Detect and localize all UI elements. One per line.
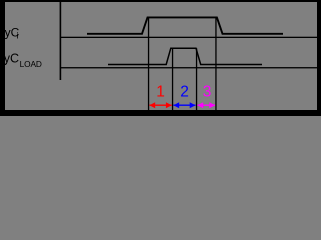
svg-text:yC: yC xyxy=(4,52,19,66)
signal name label yC_LOAD xyxy=(4,52,42,69)
border frame (decorative) xyxy=(0,0,321,116)
interval 1 label "1" xyxy=(156,84,165,101)
interval 1 dimension arrow (red) xyxy=(149,102,171,108)
interval 3 label "3" xyxy=(203,84,212,101)
label column divider line xyxy=(60,2,62,80)
waveform trace yC_i (pulse) xyxy=(87,17,283,33)
svg-text:1: 1 xyxy=(156,84,165,101)
interval 3 dimension arrow (magenta) xyxy=(197,102,215,108)
signal yC_i axis baseline xyxy=(61,37,317,38)
signal name label yC_i xyxy=(5,25,20,40)
guideline at yC_i rising edge xyxy=(148,17,149,110)
svg-text:3: 3 xyxy=(203,84,212,101)
waveform trace yC_LOAD (pulse) xyxy=(108,48,262,64)
svg-text:i: i xyxy=(17,31,19,41)
guideline at yC_LOAD rising edge xyxy=(172,48,173,110)
guideline at yC_LOAD falling edge xyxy=(196,48,197,110)
svg-text:2: 2 xyxy=(180,84,189,101)
interval 2 dimension arrow (blue) xyxy=(173,102,195,108)
svg-text:LOAD: LOAD xyxy=(20,59,42,69)
interval 2 label "2" xyxy=(180,84,189,101)
signal yC_LOAD axis baseline xyxy=(61,67,317,68)
guideline at yC_i falling edge xyxy=(215,17,216,110)
